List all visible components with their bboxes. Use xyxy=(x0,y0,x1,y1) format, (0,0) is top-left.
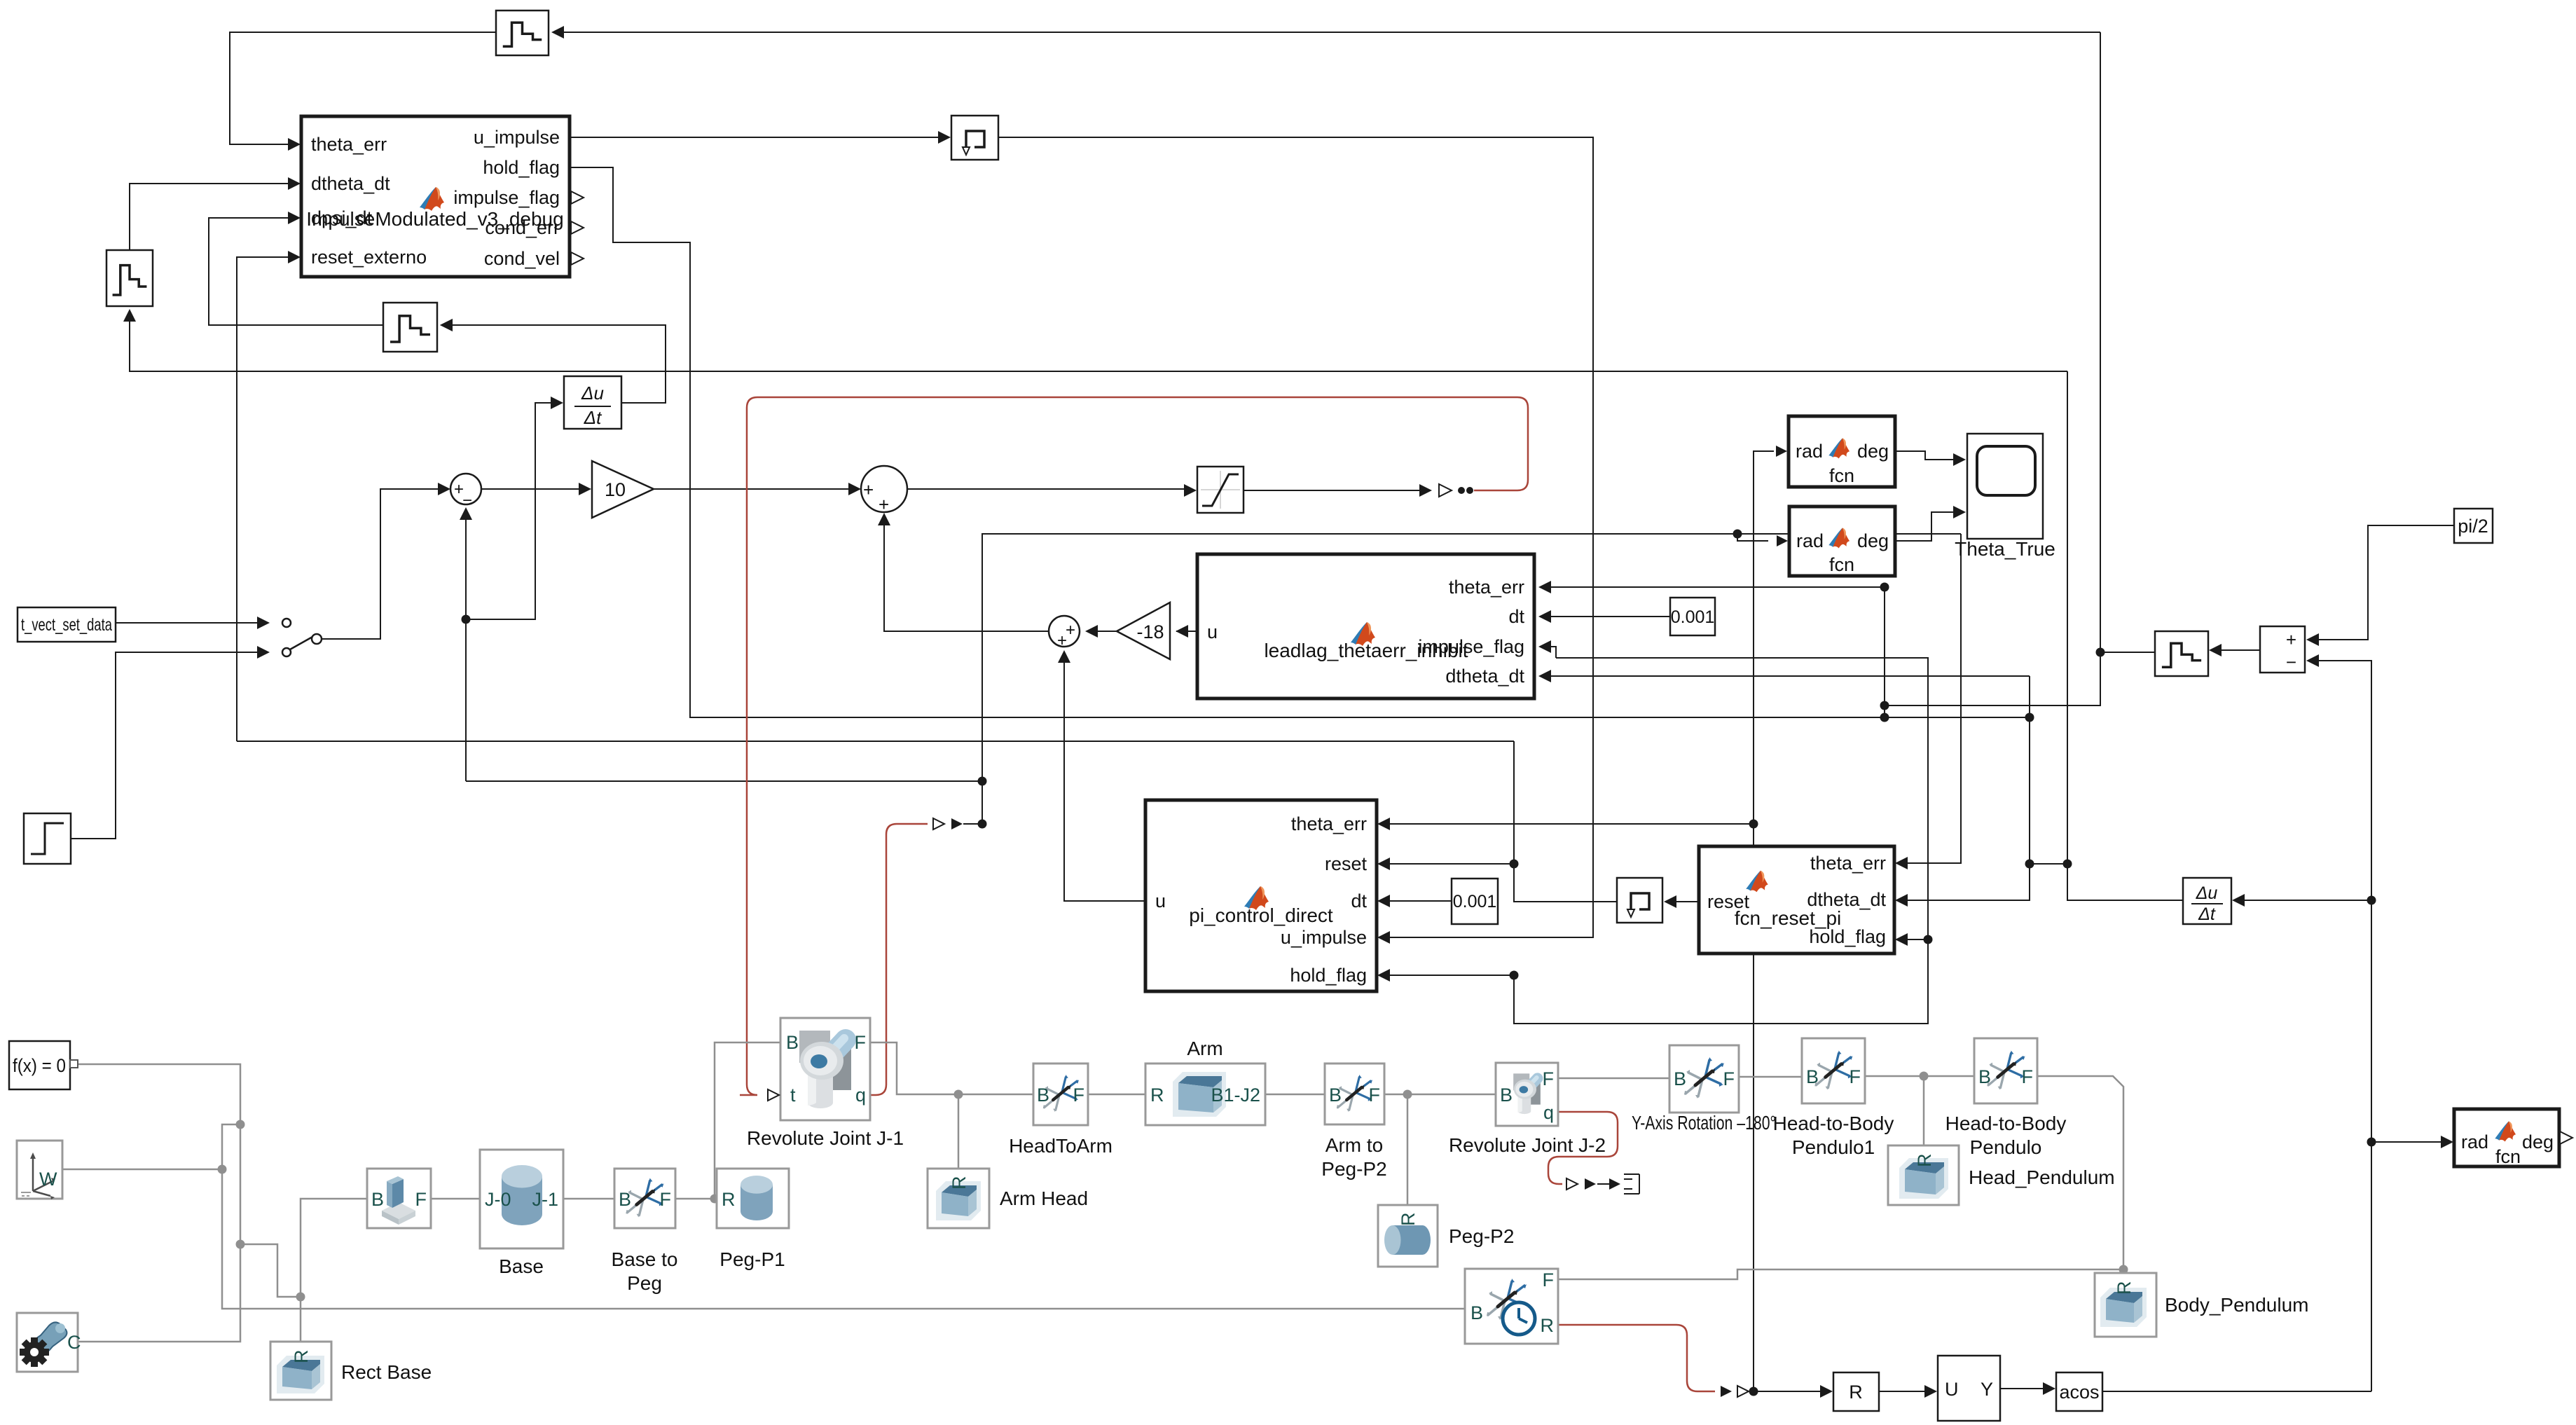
wire jog into rad2 xyxy=(1737,534,1768,541)
gain R block xyxy=(1833,1372,1879,1411)
svg-text:B: B xyxy=(1500,1085,1513,1106)
svg-text:Base to: Base to xyxy=(612,1248,678,1270)
svg-text:Y: Y xyxy=(1981,1379,1993,1400)
wire Pendulo F down to Body_Pendulum xyxy=(2037,1076,2123,1273)
Revolute Joint J-2 xyxy=(1449,1063,1606,1156)
wire Revolute J-2 F to Y-axis rotation B xyxy=(1558,1078,1669,1080)
wire red J-1 q to converter xyxy=(870,824,928,1095)
sum square +- xyxy=(2260,626,2305,673)
svg-text:Peg-P1: Peg-P1 xyxy=(719,1248,785,1270)
rigid transform Head-to-Body Pendulo xyxy=(1945,1038,2067,1158)
svg-text:B: B xyxy=(1329,1085,1342,1106)
svg-text:impulse_flag: impulse_flag xyxy=(453,187,560,208)
MATLAB function fcn_reset_pi xyxy=(1699,846,1894,954)
svg-text:rad: rad xyxy=(1796,441,1823,462)
wire Base to Peg F to Peg-P1 R xyxy=(675,1198,717,1200)
wire t_vect_set_data to switch xyxy=(116,622,264,624)
wire Du/Dt1 input riser xyxy=(466,403,558,619)
wire rect base R up to pedestal B xyxy=(301,1199,367,1342)
wire hold_flag down xyxy=(570,167,2030,717)
svg-text:R: R xyxy=(291,1350,312,1364)
derivative Du/Dt 2 xyxy=(2183,878,2231,924)
rigid transform Arm to Peg-P2 xyxy=(1321,1063,1386,1180)
wire scope input 1 xyxy=(1895,451,1955,460)
svg-text:J-1: J-1 xyxy=(532,1189,558,1210)
svg-text:theta_err: theta_err xyxy=(1291,813,1367,834)
wire sum square out to SC_right xyxy=(2215,649,2260,651)
gain -18 xyxy=(1117,603,1170,659)
svg-text:HeadToArm: HeadToArm xyxy=(1009,1135,1113,1157)
svg-text:Rect Base: Rect Base xyxy=(341,1361,432,1383)
svg-text:cond_vel: cond_vel xyxy=(484,248,560,269)
svg-text:C: C xyxy=(67,1332,81,1353)
wire leadlag dtheta_dt feed xyxy=(1544,675,2030,677)
wire long base line into sensor B xyxy=(1464,1309,1466,1312)
wire saturation to PS converter xyxy=(1244,490,1426,491)
rate-transition SC_mid xyxy=(383,303,437,352)
step block xyxy=(24,813,71,864)
wire SC_right out to V2998 xyxy=(2100,652,2155,653)
svg-text:B: B xyxy=(1978,1066,1991,1087)
wire leadlag u to gain-18 xyxy=(1176,631,1197,632)
svg-text:Peg-P2: Peg-P2 xyxy=(1321,1158,1386,1180)
terminator bracket xyxy=(1624,1174,1639,1194)
svg-text:Peg: Peg xyxy=(627,1272,662,1294)
svg-text:dtheta_dt: dtheta_dt xyxy=(1445,666,1524,687)
rate-transition SC_right xyxy=(2155,631,2208,676)
wire ArmHead R riser xyxy=(958,1094,960,1169)
wire derivative junction verticals xyxy=(1901,676,2030,900)
svg-text:Δu: Δu xyxy=(581,383,604,404)
svg-text:Arm Head: Arm Head xyxy=(1000,1187,1088,1209)
wire fcn_reset hold_flag xyxy=(1901,939,1928,940)
svg-text:dtheta_dt: dtheta_dt xyxy=(1807,889,1886,910)
svg-text:Pendulo: Pendulo xyxy=(1970,1136,2042,1158)
svg-text:0.001: 0.001 xyxy=(1453,892,1497,911)
svg-text:−: − xyxy=(462,491,472,510)
MATLAB function ImpulseModulated_v3_debug xyxy=(301,116,584,277)
wire gain10 to sum2 xyxy=(654,488,855,490)
svg-text:F: F xyxy=(1850,1066,1861,1087)
svg-text:fcn: fcn xyxy=(2495,1146,2521,1167)
svg-text:theta_err: theta_err xyxy=(311,134,387,155)
svg-text:u_impulse: u_impulse xyxy=(474,127,560,148)
svg-text:Arm to: Arm to xyxy=(1325,1134,1383,1156)
svg-text:hold_flag: hold_flag xyxy=(1290,965,1367,986)
wire sum3 output to sum2 bottom xyxy=(884,515,1049,631)
wire memory2 to pi reset xyxy=(1514,741,1617,902)
svg-text:Body_Pendulum: Body_Pendulum xyxy=(2165,1294,2308,1316)
rigid transform Base to Peg xyxy=(612,1169,678,1294)
svg-text:reset: reset xyxy=(1707,891,1750,912)
wire acos out xyxy=(2102,1391,2371,1392)
wire Memory1 to pi_control u_impulse xyxy=(998,137,1593,937)
wire acos vertical to sum square minus xyxy=(2317,661,2371,1391)
svg-text:B: B xyxy=(786,1032,799,1053)
svg-text:-18: -18 xyxy=(1136,621,1164,642)
svg-text:B: B xyxy=(1470,1302,1483,1323)
svg-text:B: B xyxy=(1674,1068,1686,1089)
wire SC_left output to dtheta_dt xyxy=(130,184,294,250)
mechanism configuration xyxy=(17,1313,81,1372)
svg-text:Revolute Joint J-2: Revolute Joint J-2 xyxy=(1449,1134,1606,1156)
svg-text:0.001: 0.001 xyxy=(1671,607,1715,627)
svg-text:rad: rad xyxy=(1796,530,1824,551)
MATLAB function leadlag_thetaerr_inhibit xyxy=(1197,554,1534,698)
wire 0.001 to leadlag dt xyxy=(1544,616,1670,617)
wire pedestal F to Base J-0 xyxy=(431,1198,480,1200)
svg-text:hold_flag: hold_flag xyxy=(483,157,560,178)
Body_Pendulum block xyxy=(2095,1273,2308,1337)
svg-text:F: F xyxy=(1543,1068,1555,1089)
svg-text:R: R xyxy=(1150,1085,1164,1106)
svg-text:cond_err: cond_err xyxy=(485,217,560,238)
sum2 xyxy=(861,466,907,515)
wire SC_top output to theta_err xyxy=(230,32,496,144)
svg-text:10: 10 xyxy=(605,479,626,500)
svg-text:deg: deg xyxy=(1857,441,1889,462)
svg-text:J-0: J-0 xyxy=(485,1189,511,1210)
Revolute Joint J-1 xyxy=(747,1018,904,1149)
wire world frame to vertical xyxy=(62,1169,222,1171)
svg-text:U: U xyxy=(1945,1379,1959,1400)
svg-text:fcn: fcn xyxy=(1829,465,1854,486)
wire Arm B1-J2 to Arm-to-Peg B xyxy=(1265,1094,1325,1096)
wire branch to rect base xyxy=(240,1244,301,1297)
Head_Pendulum block xyxy=(1888,1145,2115,1205)
wire red torque line to Revolute J-1 t port xyxy=(740,397,1528,1095)
memory Memory1 xyxy=(951,116,998,160)
MATLAB function rad-deg fcn (bottom right) xyxy=(2454,1109,2572,1167)
svg-text:dt: dt xyxy=(1508,606,1524,627)
svg-text:Head-to-Body: Head-to-Body xyxy=(1945,1113,2067,1134)
solid pedestal block xyxy=(367,1169,431,1228)
svg-text:u: u xyxy=(1207,621,1218,642)
wire SC_mid output to dpsi_dt xyxy=(209,218,383,325)
wire reset_externo feed xyxy=(237,257,294,741)
svg-text:Head_Pendulum: Head_Pendulum xyxy=(1969,1166,2115,1188)
svg-text:R: R xyxy=(1849,1382,1863,1403)
derivative Du/Dt 1 xyxy=(564,376,621,429)
sum3 xyxy=(1049,616,1080,650)
svg-text:dtheta_dt: dtheta_dt xyxy=(311,173,390,194)
wire V3385 to fcn3 rad xyxy=(2371,1141,2448,1143)
rate-transition SC_left xyxy=(106,250,153,306)
Rect Base block xyxy=(270,1342,432,1400)
svg-text:u_impulse: u_impulse xyxy=(1281,927,1367,948)
memory Memory2 xyxy=(1617,878,1662,923)
rigid transform Y-Axis Rotation xyxy=(1632,1045,1776,1134)
wire Y-axis F to Pendulo1 B xyxy=(1739,1076,1802,1078)
wire Head_Pendulum riser xyxy=(1923,1076,1925,1145)
svg-text:+: + xyxy=(1057,631,1067,650)
svg-text:Y-Axis Rotation –180°: Y-Axis Rotation –180° xyxy=(1632,1112,1776,1134)
svg-text:reset: reset xyxy=(1325,853,1368,874)
Peg-P2 block xyxy=(1378,1205,1514,1267)
wire riser to Revolute J-1 B xyxy=(715,1042,780,1199)
acos block xyxy=(2056,1372,2102,1411)
scope Theta_True xyxy=(1955,434,2055,560)
wire sum2 to saturation xyxy=(907,488,1191,490)
red wire J-2 q loop xyxy=(1548,1112,1618,1184)
wire Arm to Peg F to Revolute J-2 B xyxy=(1384,1094,1496,1096)
red wire sensor R output xyxy=(1558,1325,1715,1391)
wire sum1 to gain10 xyxy=(481,488,586,490)
svg-text:pi/2: pi/2 xyxy=(2458,516,2488,537)
constant 0.001 (pi dt) xyxy=(1452,879,1498,924)
wire theta to fcn_reset_pi theta_err xyxy=(1901,534,1961,863)
constant 0.001 (leadlag dt) xyxy=(1670,598,1715,635)
wire R to UY xyxy=(1879,1391,1931,1392)
wire Peg-P2 R riser xyxy=(1407,1094,1409,1205)
wire rad1 feed from theta raw vertical xyxy=(1754,451,1774,1391)
wire pi_control dt from 0.001 xyxy=(1383,900,1452,902)
svg-text:R: R xyxy=(2114,1281,2135,1295)
wire feedback horizontal to theta vertical xyxy=(466,780,982,782)
wire transform sensor F east xyxy=(1558,1269,2123,1279)
svg-text:f(x) = 0: f(x) = 0 xyxy=(13,1055,66,1076)
svg-text:theta_err: theta_err xyxy=(1810,853,1886,874)
svg-text:F: F xyxy=(1073,1085,1085,1106)
svg-text:Theta_True: Theta_True xyxy=(1955,538,2055,560)
constant t_vect_set_data xyxy=(18,607,116,642)
svg-text:B: B xyxy=(619,1189,631,1210)
svg-text:Revolute Joint J-1: Revolute Joint J-1 xyxy=(747,1127,904,1149)
svg-text:F: F xyxy=(415,1189,427,1210)
svg-text:B: B xyxy=(1037,1085,1049,1106)
wire leadlag theta_err feed xyxy=(1544,586,1885,588)
svg-text:impulse_flag: impulse_flag xyxy=(1418,636,1524,657)
sum1 xyxy=(450,474,481,510)
svg-text:acos: acos xyxy=(2059,1382,2099,1403)
svg-text:B: B xyxy=(371,1189,384,1210)
svg-text:reset_externo: reset_externo xyxy=(311,247,427,268)
wire theta angle vertical (from J-1 q) xyxy=(963,534,1961,824)
rate-transition SC_top xyxy=(496,11,549,55)
rigid transform Head-to-Body Pendulo1 xyxy=(1773,1038,1894,1158)
wire u_impulse output to Memory1 xyxy=(570,137,945,138)
Arm brick block xyxy=(1145,1038,1265,1125)
U-Y selector block xyxy=(1938,1356,2000,1421)
Arm Head block xyxy=(928,1169,1088,1228)
wire rad2 feed vertical xyxy=(1884,587,1885,717)
wire hold chain to impulse_flag / fcn_reset / pi_control xyxy=(1383,658,1928,1024)
wire Du/Dt2 output up to long derivative line xyxy=(2067,371,2183,900)
MATLAB function pi_control_direct xyxy=(1145,800,1377,991)
svg-text:F: F xyxy=(660,1189,672,1210)
svg-text:F: F xyxy=(2022,1066,2034,1087)
MATLAB function rad-deg fcn (second) xyxy=(1789,507,1895,576)
svg-text:rad: rad xyxy=(2461,1131,2488,1152)
wire Pendulo1 F to Pendulo B xyxy=(1865,1075,1974,1078)
transform sensor xyxy=(1465,1269,1558,1344)
svg-text:Base: Base xyxy=(499,1255,544,1277)
wire h1007 link xyxy=(1885,32,2100,705)
svg-text:deg: deg xyxy=(2522,1131,2554,1152)
wire scope input 2 xyxy=(1895,512,1955,541)
svg-text:W: W xyxy=(39,1169,57,1190)
wire UY to acos xyxy=(2000,1388,2050,1389)
wire pi_control theta_err from V2503 xyxy=(1383,823,1754,825)
svg-text:Peg-P2: Peg-P2 xyxy=(1449,1225,1514,1247)
svg-text:u: u xyxy=(1155,890,1166,911)
svg-text:F: F xyxy=(1543,1269,1555,1290)
svg-text:+: + xyxy=(2286,629,2296,650)
wire step to switch xyxy=(71,652,264,839)
svg-text:t: t xyxy=(790,1085,796,1106)
wire Du/Dt2 input xyxy=(2238,900,2371,901)
svg-text:R: R xyxy=(1398,1213,1419,1227)
wire reset distribution horizontal xyxy=(237,741,1514,742)
wire Revolute J-1 F down to HeadToArm line xyxy=(870,1042,1033,1094)
svg-text:F: F xyxy=(1723,1068,1735,1089)
svg-text:Pendulo1: Pendulo1 xyxy=(1792,1136,1875,1158)
svg-text:R: R xyxy=(722,1189,736,1210)
rigid transform HeadToArm xyxy=(1009,1063,1113,1157)
svg-text:F: F xyxy=(1369,1085,1381,1106)
svg-text:+: + xyxy=(863,479,874,500)
svg-text:+: + xyxy=(1066,621,1075,640)
Base cylinder block xyxy=(480,1150,563,1277)
svg-text:+: + xyxy=(879,494,889,515)
svg-text:−: − xyxy=(2286,652,2296,673)
svg-text:Arm: Arm xyxy=(1187,1038,1222,1059)
svg-text:dt: dt xyxy=(1351,890,1367,911)
world frame xyxy=(17,1141,62,1199)
svg-text:R: R xyxy=(949,1176,970,1190)
svg-text:deg: deg xyxy=(1857,530,1889,551)
svg-text:fcn: fcn xyxy=(1829,554,1854,575)
constant pi/2 xyxy=(2454,509,2493,543)
svg-text:t_vect_set_data: t_vect_set_data xyxy=(21,615,112,635)
manual switch xyxy=(282,619,322,656)
svg-text:F: F xyxy=(855,1032,867,1053)
wire fcn_reset reset out to memory2 xyxy=(1674,901,1699,902)
gain 10 xyxy=(592,461,654,518)
wire leadlag impulse_flag feed xyxy=(1544,647,1556,658)
wire sensor angle row: converter to R xyxy=(1721,1386,1732,1397)
wire left vertical to long base line xyxy=(222,1124,1465,1309)
svg-text:pi_control_direct: pi_control_direct xyxy=(1189,904,1333,926)
wire HeadToArm F to Arm R xyxy=(1088,1094,1145,1096)
MATLAB function rad-deg fcn (top) xyxy=(1789,416,1895,487)
svg-text:Δt: Δt xyxy=(584,407,602,428)
svg-text:R: R xyxy=(1541,1315,1555,1336)
Peg-P1 block xyxy=(717,1169,789,1270)
wire gain-18 to sum3 xyxy=(1091,631,1117,632)
wire f(x)=0 to solver vertical xyxy=(73,1064,240,1342)
svg-text:q: q xyxy=(1543,1102,1554,1123)
svg-text:Δt: Δt xyxy=(2198,904,2216,924)
wire Base J-1 to Base-to-Peg B xyxy=(563,1198,614,1200)
wire pi/2 to sum square + xyxy=(2317,525,2454,640)
svg-text:Head-to-Body: Head-to-Body xyxy=(1773,1113,1894,1134)
svg-text:dpsi_dt: dpsi_dt xyxy=(311,207,373,228)
wire pi_control u to sum3 bottom xyxy=(1064,659,1145,901)
svg-text:Δu: Δu xyxy=(2196,883,2218,903)
svg-text:R: R xyxy=(1914,1154,1935,1168)
wire switch to sum1 xyxy=(321,489,445,639)
wire sum1 bottom feedback xyxy=(465,517,467,781)
svg-text:hold_flag: hold_flag xyxy=(1809,926,1886,947)
wire Du/Dt1 output to SC_mid xyxy=(448,325,666,403)
wire long derivative line into SC_left bottom xyxy=(130,314,2067,371)
saturation xyxy=(1197,467,1244,513)
wire u_impulse to SC_top feed (top horizontal) xyxy=(554,32,2100,33)
svg-text:B: B xyxy=(1806,1066,1819,1087)
svg-text:q: q xyxy=(855,1085,866,1106)
svg-text:B1-J2: B1-J2 xyxy=(1211,1085,1260,1106)
solver f(x)=0 xyxy=(9,1041,78,1089)
svg-text:theta_err: theta_err xyxy=(1449,577,1524,598)
